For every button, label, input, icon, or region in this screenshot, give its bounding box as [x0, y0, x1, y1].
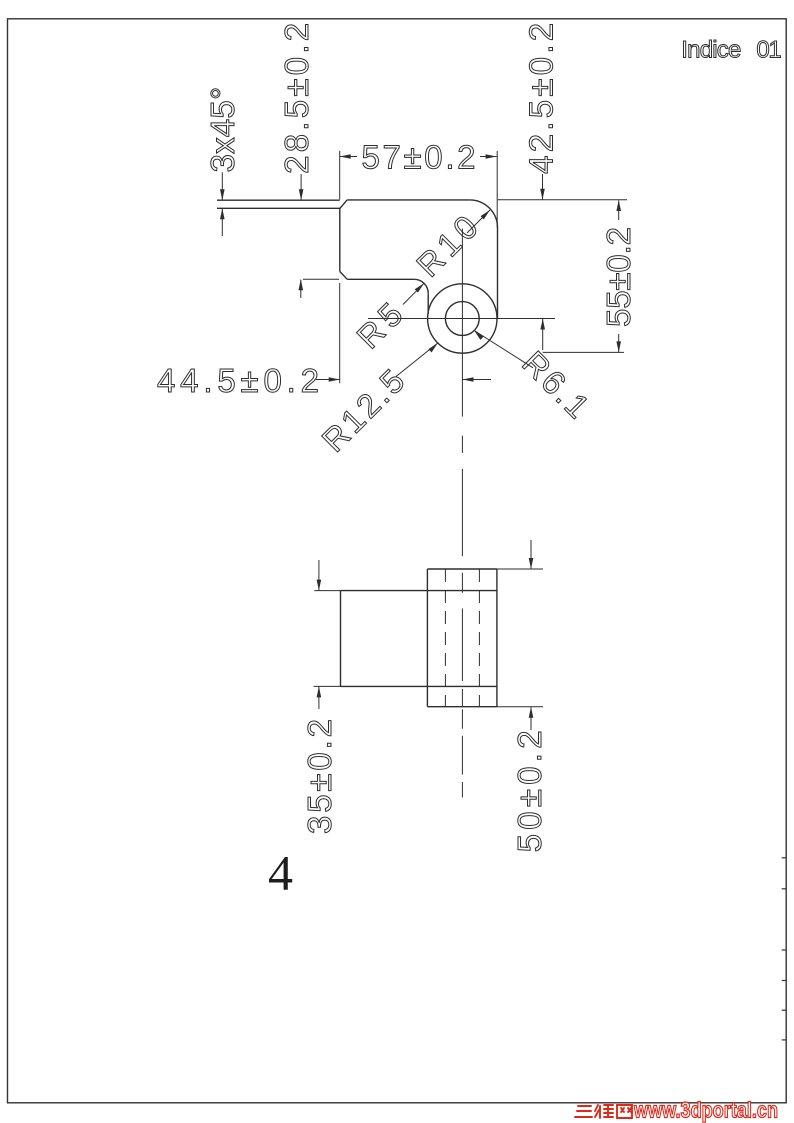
- cylinder top edge: [427, 568, 497, 570]
- chamfer 3x45 top-left: [340, 200, 347, 208]
- tab bottom edge: [217, 207, 340, 209]
- R12.5 leader: [396, 343, 438, 377]
- ext line 57 right: [496, 151, 498, 228]
- 35 dim leaders: [318, 560, 320, 590]
- corner arc R5: [414, 279, 428, 293]
- CJK chars approximated: [575, 1105, 632, 1118]
- svg-text:www.3dportal.cn: www.3dportal.cn: [633, 1098, 778, 1123]
- arrowheads top view: [220, 154, 621, 382]
- chamfer bottom-left: [340, 272, 347, 280]
- R10 leader: [467, 210, 490, 233]
- svg-text:4: 4: [268, 845, 293, 901]
- R5 leader: [403, 283, 424, 304]
- 50 dim leaders: [530, 540, 532, 569]
- cylinder right edge: [496, 569, 498, 707]
- svg-text:35±0.2: 35±0.2: [301, 719, 338, 834]
- 44.5 dim stubs: [316, 379, 340, 381]
- hole circle R6.1: [445, 302, 479, 336]
- tab top edge: [217, 199, 340, 201]
- plate bottom edge: [341, 685, 497, 687]
- hidden hole lines: [445, 569, 479, 707]
- boss circle R12.5: [428, 284, 497, 353]
- leader 3x45: [221, 172, 223, 200]
- plate top edge: [341, 590, 497, 592]
- svg-text:3x45°: 3x45°: [204, 87, 241, 172]
- horizontal centerline through hole: [368, 318, 555, 320]
- body top edge: [347, 199, 470, 201]
- leader 42.5: [542, 174, 544, 199]
- body left edge: [339, 208, 341, 271]
- vertical centerline segments: [461, 229, 463, 417]
- title text Indice 01: [681, 37, 781, 64]
- R6.1 leader: [474, 331, 533, 368]
- svg-text:Indice: Indice: [681, 37, 741, 64]
- ext line step left: [303, 278, 339, 280]
- ruler tick marks on right border: [782, 858, 787, 1040]
- step bottom edge: [347, 278, 414, 280]
- ext cylinder top right: [497, 568, 543, 570]
- ext plate bottom left: [314, 685, 341, 687]
- plate left edge: [340, 591, 342, 687]
- leader 28.5: [300, 174, 302, 200]
- svg-text:55±0.2: 55±0.2: [600, 227, 637, 327]
- side view dimensions: [314, 540, 544, 730]
- dim line 57 stubs: [340, 156, 357, 158]
- centerlines: [368, 229, 555, 798]
- watermark: [575, 1098, 778, 1123]
- top ext line right: [498, 199, 627, 201]
- 55 dim stubs: [618, 201, 620, 221]
- ext plate top left: [314, 590, 340, 592]
- ext line 57 left: [339, 151, 341, 200]
- corner arc R10: [470, 200, 498, 228]
- 44.5 ext line: [339, 283, 341, 383]
- body right edge: [497, 228, 499, 319]
- ext cylinder bottom right: [497, 706, 543, 708]
- 55 bottom ext line: [543, 351, 624, 353]
- svg-text:50±0.2: 50±0.2: [511, 730, 548, 852]
- cylinder bottom edge: [427, 706, 497, 708]
- svg-text:01: 01: [756, 37, 781, 64]
- edge to boss: [427, 293, 429, 314]
- svg-text:57±0.2: 57±0.2: [362, 139, 476, 176]
- cylinder left edge: [426, 569, 428, 707]
- dimension texts top view: [157, 23, 637, 459]
